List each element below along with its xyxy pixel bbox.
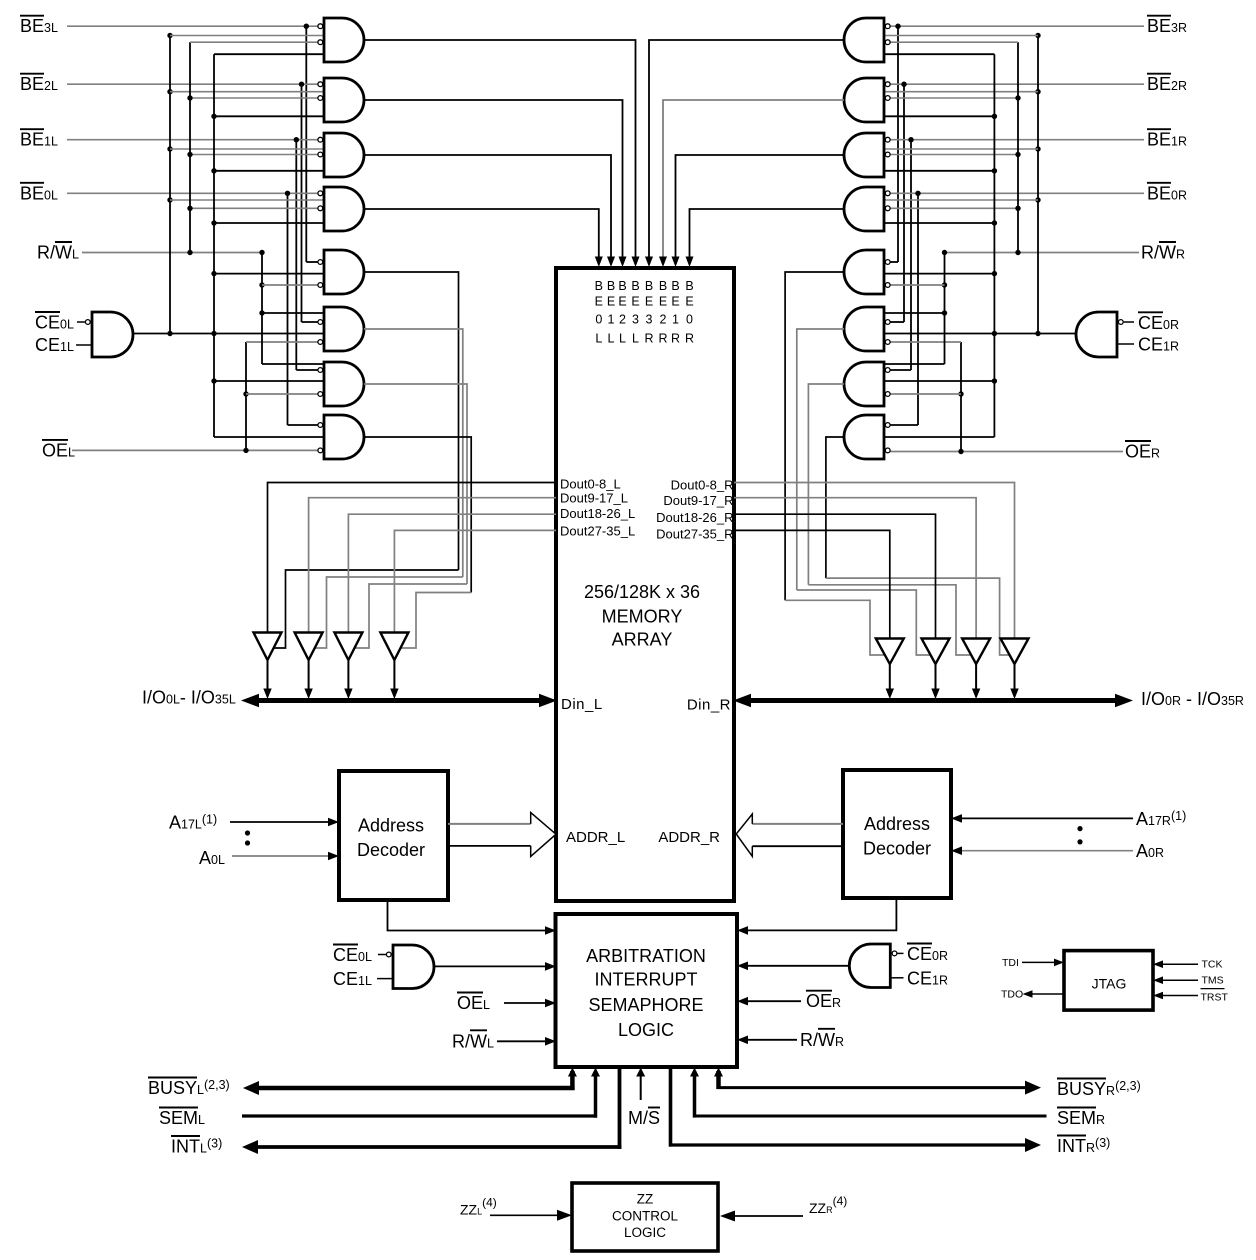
wire R/WR to arbitration — [737, 1036, 797, 1045]
ellipsis dots right address — [1077, 826, 1082, 845]
label BUSYL(2,3) with overline — [148, 1078, 230, 1099]
wire BE0L drop to gate G8L input — [288, 193, 318, 425]
svg-text:L: L — [595, 332, 602, 346]
label TRST with overline — [1201, 989, 1229, 1004]
svg-text:E: E — [685, 295, 693, 309]
wire gate G8R output enable to buffer T4R — [826, 437, 1010, 655]
buffer triangle T3R — [962, 639, 990, 700]
wire ZZR to ZZ control — [720, 1211, 803, 1222]
wire INTL with arrow — [242, 1067, 621, 1154]
svg-text:L: L — [632, 332, 639, 346]
wire CE2 distribution vertical left (x=214) — [211, 54, 324, 437]
input label A17L(1) — [169, 813, 217, 833]
svg-text:TMS: TMS — [1202, 975, 1224, 987]
wire gate G7R output enable to buffer T3R — [808, 384, 971, 655]
I/O bus right — [733, 694, 1133, 708]
input label BE0L with overline — [20, 183, 58, 204]
svg-text:Dout9-17_R: Dout9-17_R — [663, 493, 733, 508]
wire gate G4L output to array top column — [364, 209, 603, 267]
svg-text:TDO: TDO — [1001, 989, 1023, 1001]
svg-text:Address: Address — [358, 816, 424, 836]
and-gate G5L output-enable — [318, 250, 364, 294]
svg-text:ARRAY: ARRAY — [612, 630, 673, 650]
and-gate G4R byte-enable — [844, 187, 890, 231]
svg-text:TDI: TDI — [1002, 957, 1019, 969]
svg-text:Dout0-8_R: Dout0-8_R — [671, 477, 734, 492]
wire CE gate right to arbitration — [737, 962, 850, 971]
wire Dout row 3 left to buffer T3L — [348, 514, 556, 632]
svg-text:E: E — [607, 295, 615, 309]
input label BE3R with overline — [1147, 16, 1187, 37]
buffer triangle T2R — [922, 639, 950, 700]
input label BE0R with overline — [1147, 183, 1187, 204]
svg-text:1: 1 — [672, 313, 679, 327]
svg-text:R: R — [644, 332, 653, 346]
svg-text:E: E — [645, 295, 653, 309]
wire BE2L drop to gate G6L input — [302, 84, 318, 322]
svg-text:LOGIC: LOGIC — [624, 1225, 666, 1240]
svg-text:B: B — [671, 279, 679, 293]
svg-text:Dout27-35_L: Dout27-35_L — [560, 524, 635, 539]
input label CE0R arbitration with overline — [907, 944, 948, 965]
input label CE1R arbitration — [907, 969, 948, 989]
svg-text:Din_R: Din_R — [687, 697, 731, 714]
wire BUSYL with arrows — [243, 1068, 577, 1096]
wire BE0R drop to gate G8R input — [890, 193, 918, 425]
and-gate G5R output-enable — [844, 250, 890, 294]
svg-text:2: 2 — [619, 313, 626, 327]
wire TRST to JTAG — [1153, 992, 1198, 1000]
buffer triangle T4R — [1001, 639, 1029, 700]
wire decoder left to arbitration block — [388, 900, 557, 935]
input label OEL with overline — [42, 440, 75, 461]
svg-text:0: 0 — [686, 313, 693, 327]
wire R/WL — [82, 250, 265, 255]
and-gate U1R chip-enable top-right — [1076, 312, 1134, 357]
wire gate G3L output to array top column — [364, 155, 615, 267]
wire R/W distribution vertical left (x=190) — [187, 42, 318, 252]
wire Dout row 1 right to buffer T4R — [734, 483, 1015, 639]
wire A0L to decoder — [232, 852, 339, 861]
arbitration interrupt semaphore logic block — [556, 914, 738, 1067]
svg-text:3: 3 — [632, 313, 639, 327]
wire BE3L drop to gate G5L input — [306, 26, 318, 262]
block arrow ADDR_R from decoder to array — [736, 814, 843, 856]
wire TMS to JTAG — [1153, 976, 1198, 984]
wire CE gate left to arbitration — [434, 962, 556, 971]
svg-text:3: 3 — [646, 313, 653, 327]
svg-text:E: E — [659, 295, 667, 309]
block arrow ADDR_L from decoder to array — [448, 813, 556, 857]
wire BE1R drop to gate G7R input — [890, 140, 911, 370]
svg-text:B: B — [595, 279, 603, 293]
wire Dout row 2 left to buffer T2L — [309, 498, 556, 633]
wire Dout row 1 left to buffer T1L — [268, 483, 557, 633]
array Dout labels right — [656, 477, 733, 541]
svg-text:B: B — [618, 279, 626, 293]
input label ZZR(4) — [809, 1194, 847, 1216]
wire gate G1R output to array top column — [645, 40, 844, 267]
wire TCK to JTAG — [1153, 960, 1198, 968]
and-gate G3L byte-enable — [318, 133, 364, 177]
svg-text:Din_L: Din_L — [561, 696, 603, 713]
wire BE0L to gate G4L first input — [67, 191, 318, 196]
and-gate U1L chip-enable top-left — [76, 312, 133, 357]
wire R/WL to arbitration — [497, 1037, 556, 1046]
svg-text:TRST: TRST — [1201, 992, 1229, 1004]
label SEML with overline — [159, 1108, 205, 1129]
label M/S with overline on S — [628, 1108, 660, 1129]
and-gate G6R output-enable — [844, 307, 890, 351]
wire Dout row 3 right to buffer T2R — [734, 514, 936, 638]
input label A0R — [1136, 841, 1164, 861]
input label R/WL with overline on W — [37, 242, 79, 263]
wire gate G5L output enable to buffer T1L — [274, 272, 459, 648]
label INTR(3) with overline — [1057, 1136, 1110, 1157]
input label BE3L with overline — [20, 16, 58, 37]
svg-text:SEMAPHORE: SEMAPHORE — [588, 995, 703, 1015]
svg-text:INTERRUPT: INTERRUPT — [595, 970, 698, 990]
svg-text:Decoder: Decoder — [863, 839, 931, 859]
svg-text:JTAG: JTAG — [1092, 975, 1127, 991]
wire OE distribution vertical right (x=961) — [890, 342, 964, 452]
svg-text:Address: Address — [864, 814, 930, 834]
input label CE1R (top) — [1138, 335, 1179, 355]
svg-text:Dout0-8_L: Dout0-8_L — [560, 476, 621, 491]
and-gate G7L output-enable — [318, 362, 364, 406]
svg-text:Dout27-35_R: Dout27-35_R — [656, 527, 733, 542]
wire SEMR — [690, 1068, 1047, 1118]
wire M/S into arbitration — [636, 1068, 645, 1101]
wire CE0L-CE1L gate output to distribution verticals — [133, 331, 324, 336]
svg-text:L: L — [608, 332, 615, 346]
wire BE1R to gate G3R first input — [890, 137, 1144, 142]
svg-text:B: B — [631, 279, 639, 293]
buffer triangle T1L — [254, 633, 282, 700]
ellipsis dots left address — [245, 830, 250, 845]
wire BE2R drop to gate G6R input — [890, 84, 904, 322]
wire BE3R drop to gate G5R input — [890, 26, 898, 262]
wire Dout row 2 right to buffer T3R — [734, 498, 976, 639]
wire gate G7L output enable to buffer T3L — [355, 384, 467, 648]
and-gate G6L output-enable — [318, 307, 364, 351]
wire BE2R to gate G2R first input — [890, 82, 1144, 87]
input label BE2L with overline — [20, 74, 58, 95]
label SEMR with overline — [1057, 1108, 1105, 1129]
wire gate G8L output enable to buffer T4L — [364, 437, 471, 648]
wire BE1L drop to gate G7L input — [296, 140, 318, 370]
and-gate G8R output-enable — [844, 415, 890, 459]
wire INTR with arrow — [669, 1067, 1041, 1152]
svg-text:Dout18-26_L: Dout18-26_L — [560, 506, 635, 521]
svg-text:2: 2 — [660, 313, 667, 327]
wire gate G1L output to array top column — [364, 40, 640, 267]
input label OER arbitration with overline — [806, 991, 841, 1012]
wire OER to arbitration — [737, 997, 801, 1006]
svg-text:CONTROL: CONTROL — [612, 1209, 678, 1224]
wire BUSYR with arrows — [714, 1068, 1041, 1095]
wire gate G2L output to array top column — [364, 100, 627, 267]
svg-text:E: E — [631, 295, 639, 309]
wire BE2L to gate G2L first input — [67, 82, 318, 87]
address decoder block left — [339, 771, 448, 900]
input label OER with overline — [1125, 441, 1160, 462]
wire Dout row 4 right to buffer T1R — [734, 530, 890, 638]
wire BE0R to gate G4R first input — [890, 191, 1144, 196]
wire A17L to decoder — [230, 818, 339, 827]
buffer triangle T2L — [295, 633, 323, 700]
I/O bus left — [241, 694, 557, 708]
label INTL(3) with overline — [171, 1136, 222, 1157]
svg-text:E: E — [671, 295, 679, 309]
JTAG block — [1064, 951, 1153, 1011]
wire decoder right to arbitration block — [737, 898, 896, 935]
and-gate G1R byte-enable — [844, 18, 890, 62]
wire TDO from JTAG — [1023, 990, 1065, 998]
wire BE3R to gate G1R first input — [890, 24, 1144, 29]
svg-text:B: B — [685, 279, 693, 293]
array top pin column labels BE0L-BE3L BE3R-BE0R — [595, 279, 694, 346]
wire BE3L to gate G1L first input — [67, 24, 318, 29]
svg-text:E: E — [595, 295, 603, 309]
wire R/WR — [942, 250, 1139, 255]
wire gate G2R output to array top column — [659, 100, 844, 267]
wire R/W2 distribution vertical left (x=262) — [259, 253, 324, 365]
and-gate G8L output-enable — [318, 415, 364, 459]
svg-text:Dout9-17_L: Dout9-17_L — [560, 490, 628, 505]
wire gate G4R output to array top column — [686, 209, 845, 267]
buffer triangle T1R — [876, 639, 904, 700]
svg-text:LOGIC: LOGIC — [618, 1020, 674, 1040]
wire BE1L to gate G3L first input — [67, 137, 318, 142]
and-gate G4L byte-enable — [318, 187, 364, 231]
and-gate G3R byte-enable — [844, 133, 890, 177]
svg-text:ADDR_L: ADDR_L — [566, 829, 625, 846]
svg-text:B: B — [607, 279, 615, 293]
svg-text:Decoder: Decoder — [357, 840, 425, 860]
wire R/W2 distribution vertical right (x=944) — [884, 253, 947, 365]
wire OE distribution vertical left (x=246) — [243, 342, 318, 450]
svg-text:R: R — [671, 332, 680, 346]
wire CE distribution vertical left (x=170) — [167, 33, 324, 334]
svg-text:ARBITRATION: ARBITRATION — [586, 946, 706, 966]
and-gate G2R byte-enable — [844, 78, 890, 122]
svg-text:B: B — [659, 279, 667, 293]
wire TDI to JTAG — [1022, 959, 1064, 967]
memory array block 256/128K x 36 — [556, 268, 734, 901]
svg-text:ZZ: ZZ — [637, 1191, 654, 1206]
svg-text:MEMORY: MEMORY — [602, 607, 683, 627]
input label BE2R with overline — [1147, 74, 1187, 95]
buffer triangle T3L — [334, 633, 362, 700]
and-gate G1L byte-enable — [318, 18, 364, 62]
label BUSYR(2,3) with overline — [1057, 1079, 1141, 1100]
wire gate G6L output enable to buffer T2L — [315, 329, 463, 648]
wire R/W distribution vertical right (x=1018) — [890, 42, 1021, 252]
svg-text:L: L — [619, 332, 626, 346]
and-gate G2L byte-enable — [318, 78, 364, 122]
input label A17R(1) — [1136, 809, 1186, 829]
wire CE2 distribution vertical right (x=994) — [884, 54, 997, 437]
input label CE1L arbitration — [333, 969, 372, 989]
svg-text:M/S: M/S — [628, 1108, 660, 1128]
label I/O0R-I/O35R — [1141, 689, 1244, 709]
and-gate G7R output-enable — [844, 362, 890, 406]
svg-text:256/128K x 36: 256/128K x 36 — [584, 582, 700, 602]
svg-text:0: 0 — [595, 313, 602, 327]
wire Dout row 4 left to buffer T4L — [394, 530, 556, 632]
wire gate G3R output to array top column — [672, 155, 845, 267]
svg-text:1: 1 — [608, 313, 615, 327]
input label BE1L with overline — [20, 129, 58, 150]
svg-text:B: B — [645, 279, 653, 293]
array Dout labels left — [560, 476, 635, 538]
wire A17R to decoder — [951, 814, 1133, 823]
buffer triangle T4L — [380, 633, 408, 700]
label I/O0L-I/O35L — [142, 688, 236, 708]
input label BE1R with overline — [1147, 129, 1187, 150]
wire CE0R-CE1R gate output to distribution verticals — [884, 331, 1076, 336]
input label R/WR with overline on W — [1141, 242, 1185, 263]
wire OER to gate G8R — [890, 449, 1123, 454]
wire gate G5R output enable to buffer T1R — [785, 272, 885, 655]
input label A0L — [199, 848, 225, 868]
input label R/WL arbitration — [452, 1030, 494, 1051]
input label ZZL(4) — [460, 1195, 497, 1217]
wire ZZL to ZZ control — [490, 1210, 572, 1221]
and-gate U2L chip-enable arbitration left — [377, 945, 434, 989]
input label R/WR arbitration — [800, 1029, 844, 1050]
wire CE distribution vertical right (x=1038) — [884, 33, 1041, 334]
svg-text:ADDR_R: ADDR_R — [658, 829, 720, 846]
svg-text:TCK: TCK — [1202, 959, 1223, 971]
and-gate U2R chip-enable arbitration right — [849, 944, 903, 988]
svg-text:R: R — [658, 332, 667, 346]
input label CE0L arbitration with overline — [333, 945, 372, 966]
svg-text:E: E — [618, 295, 626, 309]
wire A0R to decoder — [951, 846, 1133, 855]
input label CE0R with overline (top) — [1138, 312, 1179, 333]
svg-text:Dout18-26_R: Dout18-26_R — [656, 510, 733, 525]
input label CE0L with overline (top) — [35, 312, 74, 333]
wire OEL to gate G8L — [72, 448, 318, 453]
wire SEML — [242, 1068, 600, 1118]
input label CE1L (top) — [35, 335, 74, 355]
address decoder block right — [843, 770, 951, 898]
ZZ control logic block — [572, 1183, 718, 1251]
input label OEL arbitration with overline — [457, 993, 490, 1014]
wire OEL to arbitration — [504, 999, 556, 1008]
wire gate G6R output enable to buffer T2R — [797, 329, 931, 655]
svg-text:R: R — [685, 332, 694, 346]
